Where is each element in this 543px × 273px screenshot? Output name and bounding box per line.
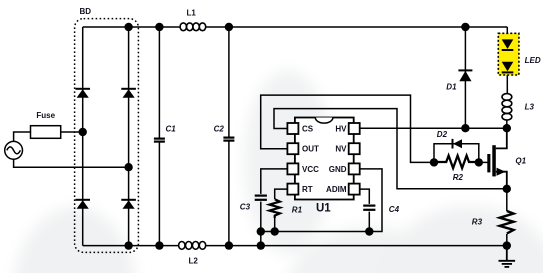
LED diode 2	[502, 62, 514, 73]
node C4 bottom	[365, 227, 373, 235]
ground symbol	[499, 246, 516, 267]
node fuse bridge	[79, 128, 87, 136]
wire top rail mid	[206, 26, 508, 28]
svg-text:HV: HV	[335, 125, 347, 134]
wire R1 bottom	[274, 218, 276, 232]
svg-text:R3: R3	[472, 218, 483, 227]
capacitor C3	[255, 196, 267, 200]
node C3 bottom	[257, 227, 265, 235]
pin CS	[287, 123, 298, 134]
wire AC to fuse	[14, 132, 31, 141]
wire AC bottom to bridge	[14, 159, 129, 167]
svg-text:RT: RT	[302, 185, 313, 194]
wire C1 branch	[158, 27, 160, 138]
wire VCC to C3	[261, 169, 288, 194]
inductor L1	[180, 23, 206, 31]
wire C4 bottom	[368, 212, 370, 232]
svg-text:L2: L2	[189, 257, 199, 266]
node D1 top	[461, 23, 469, 31]
AC source V1	[5, 141, 23, 159]
diode D2	[453, 139, 463, 149]
node C2 top	[225, 23, 233, 31]
node C1 top	[155, 23, 163, 31]
wire HV to drain node	[360, 127, 507, 129]
node Q1 source	[503, 185, 511, 193]
svg-text:CS: CS	[302, 125, 314, 134]
diode D1	[458, 70, 472, 81]
bridge diode lower-right	[121, 200, 136, 209]
capacitor C1	[154, 139, 165, 142]
svg-text:U1: U1	[316, 203, 331, 215]
svg-text:Fuse: Fuse	[36, 111, 55, 120]
wire LED branch top	[506, 27, 508, 39]
IC U1 notch	[315, 118, 333, 124]
pin RT	[287, 184, 298, 195]
wire gate	[479, 161, 488, 163]
wire R3 top lead	[506, 189, 508, 211]
svg-text:OUT: OUT	[302, 145, 319, 154]
pin NV	[349, 143, 360, 154]
node R1 bottom	[271, 227, 279, 235]
node R2 right	[475, 158, 483, 166]
wire C2 branch	[228, 27, 230, 137]
bridge rectifier BD dashed box	[75, 19, 139, 253]
svg-text:R2: R2	[453, 173, 464, 182]
wire ADIM to C4	[360, 189, 370, 204]
wire C3 bottom	[260, 202, 262, 232]
bridge diode upper-left	[75, 89, 90, 98]
bridge diode upper-right	[121, 89, 136, 98]
node drain L3	[503, 124, 511, 132]
svg-text:C3: C3	[240, 203, 251, 212]
node C2 bottom	[225, 241, 233, 249]
pin OUT	[287, 143, 298, 154]
LED module dashed yellow box	[498, 33, 519, 75]
pin GND	[349, 163, 360, 174]
svg-text:C4: C4	[389, 205, 400, 214]
node bridge top	[124, 23, 132, 31]
MOSFET Q1	[487, 128, 507, 189]
node D1 bottom	[461, 124, 469, 132]
resistor R3	[500, 211, 514, 234]
wire LED to L3	[506, 73, 508, 93]
pin VCC	[287, 163, 298, 174]
resistor R2	[434, 156, 479, 169]
wire D1 branch	[464, 27, 466, 128]
svg-text:BD: BD	[80, 7, 92, 16]
svg-text:R1: R1	[292, 206, 303, 215]
capacitor C4	[363, 206, 375, 210]
svg-text:LED: LED	[525, 56, 541, 65]
node C1 bottom	[155, 241, 163, 249]
svg-text:Q1: Q1	[515, 156, 526, 165]
node R2 left	[430, 158, 438, 166]
wire bottom rail right	[206, 245, 507, 247]
svg-text:C2: C2	[214, 124, 225, 133]
svg-text:GND: GND	[329, 165, 347, 174]
LED diode 1	[502, 39, 514, 50]
wire RT to R1	[275, 189, 288, 199]
svg-text:VCC: VCC	[302, 165, 319, 174]
svg-text:D1: D1	[446, 82, 457, 91]
svg-text:ADIM: ADIM	[326, 185, 347, 194]
svg-text:C1: C1	[166, 124, 177, 133]
inductor L3	[502, 94, 512, 120]
wire bottom rail left	[83, 245, 179, 247]
wire top rail left	[83, 26, 180, 28]
resistor R1	[269, 199, 280, 218]
wire bridge right branch	[128, 27, 130, 246]
wire ground stub to rail	[260, 232, 262, 246]
wire fuse to bridge	[61, 131, 83, 133]
svg-text:D2: D2	[437, 130, 448, 139]
wire R3 bottom lead	[506, 234, 508, 246]
wire OUT pin loop to R2 D2	[261, 95, 434, 162]
inductor L2	[179, 242, 206, 250]
wire D2 parallel branch	[434, 144, 479, 163]
wire LED interconnect	[506, 51, 508, 62]
fuse F1	[31, 126, 61, 139]
node R3 bottom	[503, 241, 511, 249]
capacitor C2	[223, 138, 234, 141]
svg-text:L1: L1	[187, 9, 197, 18]
wire CS pin loop to Q1 source	[274, 109, 507, 189]
wire analog ground bus	[261, 169, 382, 232]
svg-text:NV: NV	[335, 145, 347, 154]
pin HV	[349, 123, 360, 134]
node bridge bottom	[124, 241, 132, 249]
pin ADIM	[349, 184, 360, 195]
bridge diode lower-left	[75, 200, 90, 209]
node ground stub	[257, 241, 265, 249]
IC U1 body	[295, 118, 354, 200]
wire bridge left branch	[82, 27, 84, 246]
node AC bridge	[124, 163, 132, 171]
svg-text:L3: L3	[525, 103, 535, 112]
wire L3 to drain node	[506, 120, 508, 128]
